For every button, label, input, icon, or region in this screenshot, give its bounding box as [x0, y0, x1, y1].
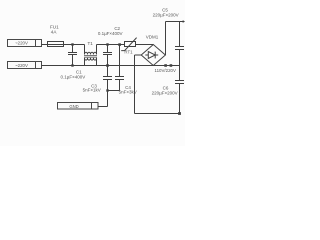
svg-text:220µF×200V: 220µF×200V	[152, 91, 178, 96]
svg-text:VDM1: VDM1	[146, 35, 159, 40]
node C4 top junction on top AC line	[118, 43, 121, 46]
svg-text:0.1µF×400V: 0.1µF×400V	[98, 31, 123, 36]
svg-text:GND: GND	[69, 104, 78, 109]
capacitor C5	[175, 22, 184, 66]
connector GND	[58, 103, 99, 110]
node C3 ground-bus junction	[106, 89, 108, 91]
node C1 top junction	[71, 43, 73, 45]
wire bottom AC line from J2 to bridge and switch	[42, 65, 180, 67]
fuse FU1 body	[48, 42, 64, 47]
wire ground bus C3 to C4	[108, 90, 120, 92]
wire RT1 to bridge top vertex	[136, 44, 154, 46]
node C1 bottom junction	[71, 64, 73, 66]
node C6 bottom junction on negative rail	[178, 112, 181, 115]
connector J2 ~220V (bottom AC input)	[8, 62, 42, 69]
node C2 bottom junction	[106, 64, 108, 66]
svg-text:110V/220V: 110V/220V	[154, 68, 175, 73]
transformer T1 common-mode choke	[84, 45, 97, 66]
wire negative DC rail bottom	[135, 113, 180, 115]
wire bridge left vertex to negative rail riser	[135, 54, 142, 56]
wire top AC line from J1 through fuse to choke	[42, 44, 85, 46]
svg-text:220µF×200V: 220µF×200V	[153, 13, 179, 18]
svg-text:~220V: ~220V	[15, 63, 28, 68]
capacitor C1	[68, 45, 77, 66]
svg-text:0.1µF×400V: 0.1µF×400V	[61, 74, 86, 79]
capacitor C2	[103, 45, 112, 66]
thermistor RT1 body	[125, 42, 136, 47]
switch 110V/220V contact dot left	[164, 64, 167, 67]
thermistor RT1 diagonal stroke	[121, 38, 136, 51]
svg-text:C6: C6	[163, 85, 169, 90]
connector J1 ~220V (top AC input)	[8, 40, 42, 47]
wire negative rail riser down	[134, 55, 136, 114]
wire GND connector to ground bus riser	[98, 106, 108, 108]
capacitor C4 (Y-cap from top line to ground)	[115, 45, 124, 91]
node output arrow at positive rail end	[183, 20, 185, 23]
wire positive DC rail to right edge	[166, 21, 185, 23]
capacitor C3 (Y-cap to ground)	[103, 66, 112, 107]
capacitor C6	[175, 66, 184, 114]
node C2 top junction	[106, 43, 108, 45]
node C3 top junction on bottom AC line	[106, 64, 108, 66]
wire bridge right vertex up to positive rail	[165, 22, 167, 56]
diode symbol inside VDM1	[145, 52, 158, 59]
bridge rectifier VDM1 diamond	[141, 45, 165, 66]
switch 110V/220V contact dot right	[170, 64, 173, 67]
wire top AC line from choke to RT1	[97, 44, 125, 46]
svg-text:RT1: RT1	[124, 49, 133, 54]
svg-text:4A: 4A	[51, 29, 58, 34]
svg-text:~220V: ~220V	[15, 40, 28, 45]
svg-text:T1: T1	[87, 41, 93, 46]
svg-text:5nF×1kV: 5nF×1kV	[83, 87, 101, 92]
